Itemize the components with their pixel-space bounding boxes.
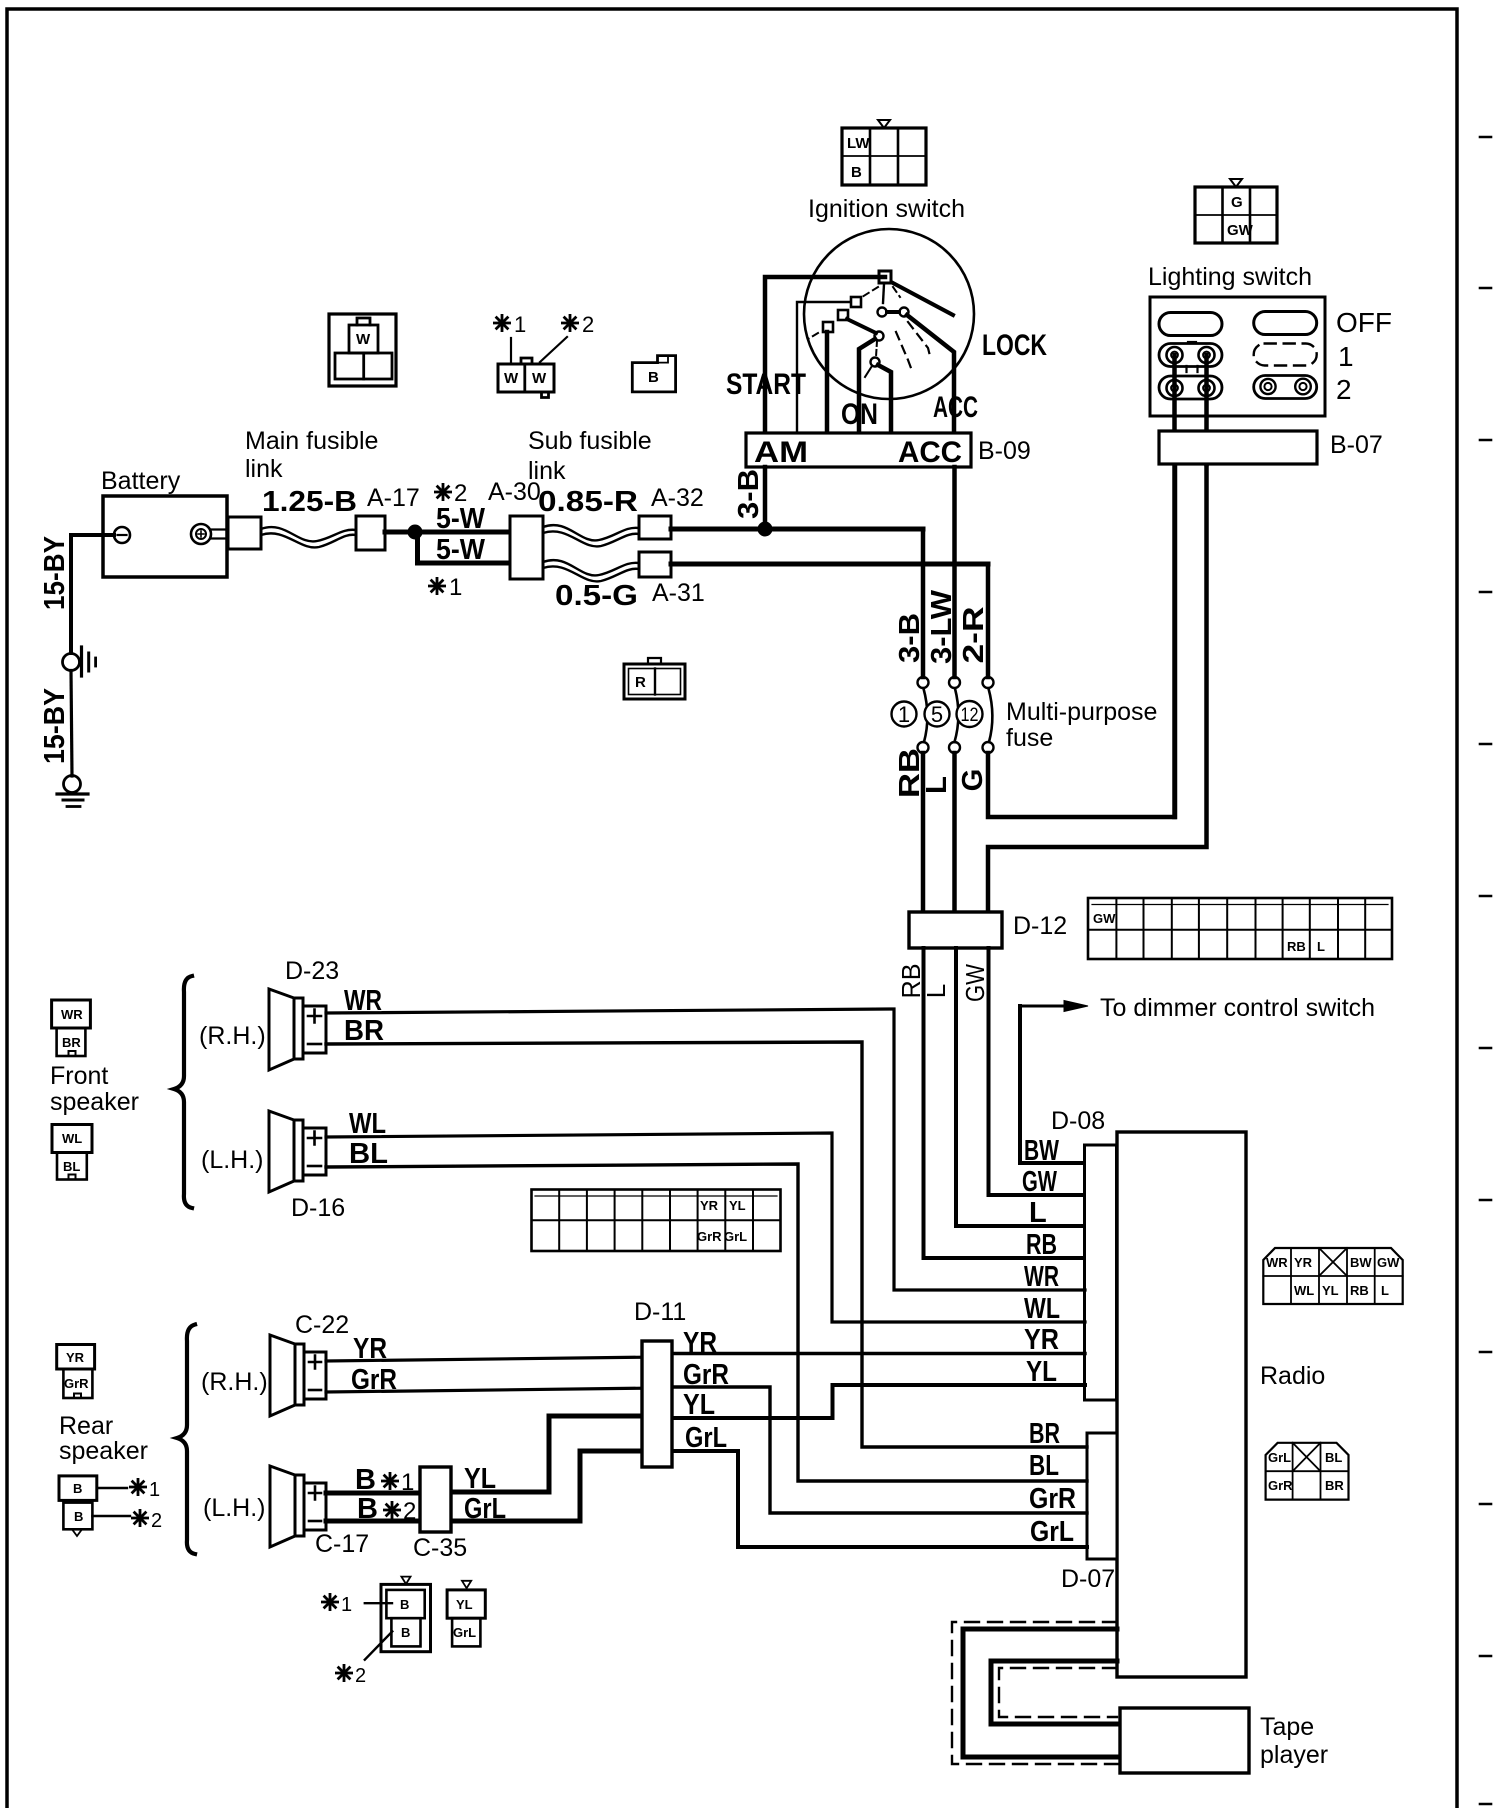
svg-text:R: R — [635, 674, 646, 691]
fuse number 1 circle — [892, 702, 917, 727]
leader line to asterisk-1 (sub link) — [510, 338, 512, 364]
dashed position lines — [862, 287, 878, 297]
wire YR rear RH through D-11 to D-08 — [326, 1357, 660, 1361]
svg-text:3-B: 3-B — [733, 469, 765, 519]
wire BL front LH to D-07 — [326, 1164, 1087, 1481]
svg-text:Sub fusible: Sub fusible — [528, 427, 652, 455]
wire WR front RH to D-08 — [326, 1009, 1085, 1290]
fuse 1 — [918, 677, 929, 688]
connector D-07 — [1087, 1433, 1117, 1559]
svg-text:AM: AM — [754, 436, 808, 469]
front speaker RH — [269, 989, 326, 1070]
spare connector B (flag shape) — [632, 356, 675, 392]
lighting switch wire right column — [1204, 355, 1209, 464]
shield wire radio to tape player (outer) — [963, 1629, 1118, 1757]
radio pinout table lower — [1266, 1443, 1349, 1500]
svg-text:G: G — [1231, 194, 1243, 211]
svg-text:B: B — [73, 1481, 82, 1496]
svg-text:BW: BW — [1350, 1255, 1372, 1270]
wire GrR D-11 to D-07 — [655, 1387, 1087, 1513]
svg-text:GW: GW — [1022, 1166, 1057, 1198]
connector A-31 — [639, 552, 671, 577]
svg-text:fuse: fuse — [1006, 724, 1053, 752]
lighting switch connector block — [1195, 179, 1277, 243]
radio box — [1117, 1132, 1246, 1677]
detached connector B/B (asterisk callout) — [381, 1577, 431, 1652]
svg-text:A-31: A-31 — [652, 579, 705, 607]
svg-text:1: 1 — [514, 312, 526, 337]
wire YL D-11 to D-08 — [655, 1385, 1085, 1418]
sub fusible link spare connector (W W) — [498, 358, 554, 398]
svg-text:BL: BL — [1029, 1450, 1059, 1482]
reference mark 2 (B wire) — [383, 1501, 401, 1519]
wire GrL D-11 to D-07 — [655, 1451, 1087, 1547]
svg-text:(L.H.): (L.H.) — [203, 1494, 266, 1522]
pos2 right contacts — [1260, 379, 1275, 394]
svg-text:3-B: 3-B — [894, 613, 926, 663]
wire B*1 rear LH plus to C-35 — [326, 1491, 420, 1496]
lighting sw OFF left slot — [1159, 313, 1222, 336]
svg-text:0.85-R: 0.85-R — [538, 486, 638, 518]
shield dashed outline inner — [999, 1668, 1117, 1717]
ignition switch circle — [804, 229, 974, 399]
wire RB D-12 to radio D-08 — [924, 948, 1086, 1258]
lighting sw OFF right slot — [1254, 312, 1317, 335]
svg-text:Tape: Tape — [1260, 1713, 1314, 1741]
lighting sw pos2 right slot — [1254, 376, 1317, 399]
wire c3 to ON column — [859, 339, 875, 433]
shield wire radio to tape player (inner) — [991, 1661, 1118, 1724]
wire s1 to B-09 pin2 — [797, 302, 850, 433]
wire L D-12 to radio D-08 — [956, 948, 1085, 1226]
ignition contact square s2 — [838, 310, 848, 320]
wire pivot to AM feed — [765, 277, 885, 433]
svg-text:WR: WR — [1266, 1255, 1288, 1270]
rear speaker LH — [270, 1466, 326, 1547]
svg-text:L: L — [921, 984, 951, 998]
svg-text:WL: WL — [62, 1131, 82, 1146]
svg-text:YL: YL — [683, 1389, 715, 1421]
svg-text:WL: WL — [1294, 1283, 1314, 1298]
svg-text:WL: WL — [1024, 1293, 1060, 1325]
svg-text:To dimmer control switch: To dimmer control switch — [1100, 994, 1375, 1022]
svg-text:ON: ON — [841, 398, 878, 431]
svg-text:L: L — [1317, 939, 1325, 954]
sub fusible link wavy cable 0.5-G — [543, 560, 639, 575]
lighting sw pos1 right slot (dashed) — [1254, 344, 1317, 366]
svg-text:YL: YL — [1322, 1283, 1339, 1298]
svg-text:GrL: GrL — [1268, 1450, 1291, 1465]
wire GrR rear RH to D-11 — [326, 1388, 660, 1392]
connector B-09 — [746, 433, 971, 467]
svg-text:LOCK: LOCK — [982, 329, 1047, 362]
front speaker LH — [269, 1111, 326, 1192]
connector C-35 — [420, 1467, 451, 1532]
wire c4 to B-09 pin5 — [878, 365, 891, 433]
svg-text:BR: BR — [62, 1035, 81, 1050]
wire s3 to B-09 pin3 — [825, 332, 830, 433]
svg-text:GW: GW — [1093, 911, 1116, 926]
svg-text:BL: BL — [349, 1138, 388, 1170]
svg-text:W: W — [356, 331, 371, 348]
svg-text:OFF: OFF — [1336, 307, 1392, 338]
connector D-08 — [1085, 1145, 1117, 1400]
connector D-12 — [909, 912, 1002, 948]
wire c1-c2 — [887, 310, 899, 314]
svg-text:GrR: GrR — [1029, 1483, 1076, 1515]
wire BW dimmer branch to radio D-08 — [1020, 1006, 1085, 1163]
svg-text:GrL: GrL — [453, 1625, 476, 1640]
reference mark 2 (left icon) — [131, 1509, 149, 1527]
svg-text:2-R: 2-R — [958, 606, 990, 663]
svg-text:D-12: D-12 — [1013, 912, 1067, 940]
wire L fuse5 to D-12 — [952, 753, 957, 912]
svg-text:YR: YR — [683, 1327, 717, 1359]
svg-text:1.25-B: 1.25-B — [262, 486, 357, 518]
spare connector R (hatched) — [624, 658, 685, 699]
svg-text:link: link — [245, 455, 283, 483]
svg-text:B: B — [355, 1464, 376, 1496]
svg-text:GW: GW — [1227, 222, 1254, 239]
svg-text:5: 5 — [931, 702, 943, 727]
svg-text:YL: YL — [456, 1597, 473, 1612]
svg-text:2: 2 — [151, 1510, 162, 1532]
svg-text:D-07: D-07 — [1061, 1565, 1115, 1593]
wire 5-W lower — [418, 532, 511, 563]
svg-text:WR: WR — [1024, 1261, 1059, 1293]
junction node (5-W split) — [408, 525, 422, 539]
lighting switch wire left column — [1172, 355, 1177, 817]
svg-text:BW: BW — [1024, 1135, 1059, 1167]
dashed link between left slots — [1187, 366, 1198, 377]
svg-text:2: 2 — [454, 480, 467, 507]
svg-text:Radio: Radio — [1260, 1362, 1325, 1390]
svg-text:0.5-G: 0.5-G — [555, 580, 638, 612]
ground G2 — [64, 776, 81, 793]
svg-text:GrL: GrL — [1030, 1516, 1074, 1548]
connector icon WL/BL — [52, 1125, 92, 1180]
svg-text:B: B — [357, 1493, 378, 1525]
svg-text:YR: YR — [700, 1198, 719, 1213]
svg-text:1: 1 — [898, 702, 910, 727]
svg-text:1: 1 — [341, 1594, 352, 1616]
svg-text:B-07: B-07 — [1330, 431, 1383, 459]
svg-text:Rear: Rear — [59, 1412, 113, 1440]
wire 2-R down to fuse 12 — [986, 564, 991, 677]
svg-text:2: 2 — [1336, 374, 1352, 405]
wire BR front RH to D-07 — [326, 1042, 1087, 1447]
svg-text:GrL: GrL — [724, 1229, 747, 1244]
leader line to asterisk-2 (sub link) — [540, 337, 567, 362]
reference mark 1 (B wire) — [381, 1472, 399, 1490]
svg-text:2: 2 — [355, 1665, 366, 1687]
reference mark 1 (callout) — [321, 1593, 339, 1611]
svg-text:YL: YL — [729, 1198, 746, 1213]
connector icon WR/BR — [52, 1000, 91, 1056]
wire s2 to c3 — [847, 319, 876, 333]
junction node 3-B — [758, 522, 772, 536]
svg-text:Battery: Battery — [101, 467, 181, 495]
svg-text:D-11: D-11 — [634, 1298, 686, 1326]
svg-text:(L.H.): (L.H.) — [201, 1146, 264, 1174]
pivot stem to contact — [883, 284, 884, 303]
ignition pivot contact — [879, 271, 891, 283]
ignition contact square s3 — [823, 322, 833, 332]
svg-text:GrR: GrR — [683, 1359, 729, 1391]
svg-text:LW: LW — [847, 135, 870, 152]
svg-text:Ignition switch: Ignition switch — [808, 195, 965, 223]
svg-text:WR: WR — [61, 1007, 83, 1022]
wire A-32 to 3-B junction and on to fuse 1 column — [671, 527, 923, 532]
page edge tick marks — [1480, 137, 1491, 1804]
svg-text:GrR: GrR — [1268, 1478, 1293, 1493]
ignition contact square s1 — [851, 297, 861, 307]
wire 2-R from A-31 to fuse 12 column — [671, 562, 988, 567]
wire RB fuse1 to D-12 — [921, 753, 926, 912]
radio pinout table upper — [1263, 1248, 1402, 1304]
svg-text:GrR: GrR — [64, 1376, 89, 1391]
connector icon B *1 — [59, 1476, 97, 1501]
svg-text:B: B — [400, 1597, 409, 1612]
reference mark 1 (sub link spare) — [493, 314, 511, 332]
main fusible link spare connector (W) — [329, 314, 396, 386]
front speaker brace — [174, 976, 192, 1208]
svg-text:B: B — [401, 1625, 410, 1640]
rear speaker RH — [270, 1335, 326, 1416]
dimmer control branch arrow — [1020, 1005, 1064, 1008]
svg-text:W: W — [504, 370, 519, 387]
connector table D-12 pinout — [1088, 898, 1392, 959]
svg-text:15-BY: 15-BY — [39, 688, 71, 764]
wire 3-LW ACC feed to fuse 5 — [952, 467, 957, 677]
reference mark 2 (callout) — [335, 1664, 353, 1682]
wire GrL C-35 to D-11 — [451, 1451, 660, 1521]
battery negative terminal — [114, 527, 130, 543]
svg-text:B: B — [851, 164, 862, 181]
svg-text:B: B — [648, 369, 659, 386]
connector icon YR/GrR — [57, 1345, 95, 1399]
svg-text:speaker: speaker — [50, 1088, 139, 1116]
ignition contact c2 — [900, 308, 909, 317]
rear speaker brace — [177, 1325, 195, 1555]
svg-text:ACC: ACC — [898, 436, 962, 469]
svg-text:(R.H.): (R.H.) — [199, 1022, 266, 1050]
fuse 12 — [983, 677, 994, 688]
svg-text:GrL: GrL — [464, 1493, 506, 1525]
svg-text:GW: GW — [960, 964, 990, 1002]
svg-text:1: 1 — [401, 1469, 414, 1496]
svg-text:GW: GW — [1377, 1255, 1400, 1270]
battery box — [103, 496, 227, 577]
svg-text:RB: RB — [1350, 1283, 1369, 1298]
wire c2 to ACC column — [907, 315, 954, 433]
svg-text:YL: YL — [1026, 1356, 1057, 1388]
lighting switch box — [1150, 297, 1325, 416]
connector A-30 (sub fusible link holder) — [510, 516, 543, 579]
reference mark 1 (below 5-W) — [428, 577, 446, 595]
svg-text:Lighting switch: Lighting switch — [1148, 263, 1312, 291]
svg-text:2: 2 — [403, 1498, 416, 1525]
fuse 5 — [949, 677, 960, 688]
svg-text:D-08: D-08 — [1051, 1107, 1105, 1135]
reference mark 2 (A-30) — [434, 483, 452, 501]
shield dashed outline outer — [952, 1622, 1118, 1764]
svg-text:5-W: 5-W — [436, 534, 486, 566]
wire A-17 to junction — [385, 530, 415, 535]
LOCK pointer line — [893, 283, 953, 315]
ignition switch connector block — [842, 120, 926, 185]
svg-text:L: L — [1029, 1197, 1047, 1229]
svg-text:BL: BL — [1325, 1450, 1342, 1465]
svg-text:WL: WL — [349, 1108, 386, 1140]
tape player box — [1120, 1708, 1249, 1773]
fuse number 5 circle — [925, 702, 950, 727]
wire GW D-12 to radio D-08 — [989, 948, 1086, 1195]
svg-text:A-32: A-32 — [651, 484, 704, 512]
svg-text:G: G — [957, 769, 989, 792]
svg-text:BR: BR — [344, 1015, 384, 1047]
svg-text:BR: BR — [1325, 1478, 1344, 1493]
svg-text:12: 12 — [961, 705, 979, 726]
reference mark 1 (left icon) — [129, 1478, 147, 1496]
svg-text:GrR: GrR — [697, 1229, 722, 1244]
wire 3-B B-09 to junction — [763, 467, 768, 529]
connector A-32 — [639, 516, 671, 539]
wire YL C-35 to D-11 — [451, 1416, 660, 1492]
connector A-17 — [356, 516, 385, 550]
svg-text:player: player — [1260, 1741, 1328, 1769]
svg-text:A-17: A-17 — [367, 484, 420, 512]
svg-text:1: 1 — [1338, 341, 1354, 372]
svg-text:ACC: ACC — [933, 391, 978, 424]
wire B*2 rear LH minus to C-35 — [326, 1519, 420, 1524]
svg-text:W: W — [532, 370, 547, 387]
svg-text:Multi-purpose: Multi-purpose — [1006, 698, 1157, 726]
svg-text:WR: WR — [344, 985, 382, 1017]
detached connector YL/GrL — [447, 1581, 485, 1647]
svg-text:Front: Front — [50, 1062, 108, 1090]
ground G1 (body ground) — [63, 654, 80, 671]
battery positive terminal — [191, 524, 211, 544]
connector icon B *2 — [63, 1503, 92, 1530]
svg-text:L: L — [921, 776, 953, 794]
svg-text:L: L — [1381, 1283, 1389, 1298]
pos2 left contacts — [1167, 380, 1183, 396]
pos1 left contacts — [1167, 347, 1183, 363]
sub fusible link wavy cable 0.85-R — [543, 525, 639, 540]
svg-text:C-35: C-35 — [413, 1534, 467, 1562]
svg-text:GrL: GrL — [685, 1422, 727, 1454]
main fusible link wavy cable 1.25-B — [261, 527, 356, 541]
svg-text:BR: BR — [1029, 1418, 1060, 1450]
svg-text:YL: YL — [464, 1463, 496, 1495]
svg-text:YR: YR — [1294, 1255, 1313, 1270]
svg-text:YR: YR — [66, 1350, 85, 1365]
wire G fuse12 to lighting switch B-07 left pin — [988, 464, 1175, 817]
wire 5-W upper — [415, 530, 510, 535]
connector B-07 — [1159, 431, 1317, 464]
svg-text:2: 2 — [582, 312, 594, 337]
fuse number 12 circle — [957, 701, 983, 727]
svg-text:RB: RB — [1026, 1229, 1057, 1261]
svg-text:BL: BL — [63, 1159, 80, 1174]
svg-text:5-W: 5-W — [436, 503, 486, 535]
svg-text:(R.H.): (R.H.) — [201, 1368, 268, 1396]
svg-text:D-23: D-23 — [285, 957, 339, 985]
svg-text:RB: RB — [1287, 939, 1306, 954]
dashed stem c3-c4 — [876, 341, 877, 357]
svg-text:C-22: C-22 — [295, 1311, 349, 1339]
wire 3-B junction down to fuse 1 — [921, 529, 926, 677]
svg-text:YR: YR — [1024, 1324, 1059, 1356]
connector D-11 — [642, 1341, 672, 1467]
wire between grounds 15-BY — [71, 671, 72, 777]
svg-text:B: B — [74, 1509, 83, 1524]
svg-text:1: 1 — [149, 1479, 160, 1501]
mid connector table (D-11 pinout) — [532, 1190, 781, 1252]
svg-text:GrR: GrR — [351, 1364, 397, 1396]
ignition contact c1 — [878, 308, 887, 317]
ignition contact c3 — [875, 332, 884, 341]
svg-text:speaker: speaker — [59, 1437, 148, 1465]
svg-text:B-09: B-09 — [978, 437, 1031, 465]
lighting sw pos2 left slot — [1159, 376, 1222, 399]
battery output leads — [211, 530, 228, 539]
svg-text:YR: YR — [353, 1333, 387, 1365]
reference mark 2 (sub link spare) — [561, 314, 579, 332]
battery negative wire 15-BY — [71, 535, 114, 653]
lighting sw pos1 left slot — [1159, 344, 1222, 367]
svg-text:C-17: C-17 — [315, 1530, 369, 1558]
svg-text:15-BY: 15-BY — [39, 536, 71, 610]
wire WL front LH to D-08 — [326, 1133, 1085, 1322]
battery terminal connector — [228, 517, 261, 549]
ignition contact c4 — [871, 358, 880, 367]
c4 tail — [865, 366, 872, 377]
wire GW from B-07 right pin to D-12 — [988, 464, 1207, 912]
svg-text:START: START — [726, 368, 806, 401]
svg-text:D-16: D-16 — [291, 1194, 345, 1222]
svg-text:3-LW: 3-LW — [926, 589, 958, 664]
svg-text:1: 1 — [449, 574, 462, 601]
svg-text:Main fusible: Main fusible — [245, 427, 378, 455]
svg-text:A-30: A-30 — [488, 478, 541, 506]
